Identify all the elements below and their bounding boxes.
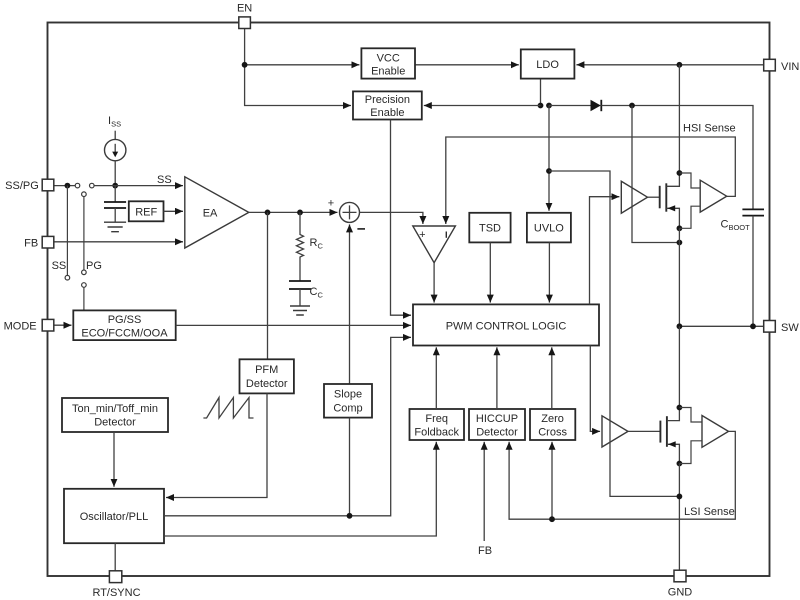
box PG/SS ECO/FCCM/OOA [73, 310, 175, 340]
svg-text:SS: SS [52, 260, 67, 272]
node high-side drain [677, 170, 683, 176]
node LSI zero cross junction [549, 516, 555, 522]
wire MODE pin to PG/SS block [54, 324, 72, 326]
wire Freq Foldback to PWM logic [435, 347, 437, 409]
wire PFM Detector to Oscillator [166, 393, 267, 497]
svg-text:HSI Sense: HSI Sense [683, 123, 736, 135]
wire diode cathode to CBOOT rail [601, 106, 753, 210]
switch contact circle [82, 192, 87, 197]
wire ISS to SS node [114, 161, 116, 186]
ground soft-start [104, 222, 126, 232]
wire EN vertical into Precision Enable [245, 29, 351, 106]
svg-text:Precision: Precision [365, 94, 410, 106]
wire gate low-side [628, 430, 660, 432]
wire VCC Enable to LDO [415, 64, 519, 66]
node VCC rail right [546, 103, 552, 109]
pin VIN [764, 59, 776, 71]
wire EN branch to VCC Enable [245, 64, 360, 66]
pin FB [42, 236, 54, 248]
wire PG sense tap [83, 197, 85, 271]
wire VCC rail through low-side driver to GND [549, 171, 679, 496]
node slope comp branch [347, 513, 353, 519]
box Ton_min/Toff_min Detector [62, 398, 168, 432]
box Precision Enable U3 [353, 91, 422, 119]
wire slope comp to summing minus input [349, 224, 351, 384]
transistor Q2 low-side [660, 408, 679, 464]
svg-text:REF: REF [135, 206, 157, 218]
wire REF to EA [164, 210, 184, 212]
wire LDO output drop [540, 80, 542, 106]
svg-text:+: + [328, 198, 334, 210]
svg-text:RC: RC [310, 237, 324, 251]
svg-text:Cross: Cross [538, 426, 567, 438]
svg-text:LSI Sense: LSI Sense [684, 506, 735, 518]
box HICCUP Detector [469, 409, 525, 440]
comparator PWM [413, 226, 456, 263]
wire switch to SS label and EA [94, 185, 183, 187]
wire HSI Sense line to PWM comparator [446, 137, 736, 224]
wire PWM logic to high-side driver [590, 197, 620, 305]
wire Zero Cross branch [551, 442, 553, 519]
wire PG switch to PG/SS block [83, 287, 85, 310]
wire VCC rail to diode anode [549, 105, 591, 107]
node BOOT branch [629, 103, 635, 109]
switch contact circle [75, 183, 80, 188]
box Slope Comp [324, 384, 372, 418]
wire EA output to PFM Detector [267, 212, 269, 359]
svg-text:PG: PG [86, 260, 102, 272]
wire VIN rail down to high-side drain [678, 65, 680, 173]
box Zero Cross [530, 409, 575, 440]
wire Ton_min detector to Oscillator [113, 432, 115, 487]
box TSD [469, 213, 510, 243]
pin RT/SYNC [109, 571, 121, 583]
svg-text:EN: EN [237, 3, 252, 15]
switch contact circle PG [82, 270, 87, 275]
wire PWM logic to low-side driver [590, 346, 600, 432]
wire FB pin to EA [54, 241, 183, 243]
node SS [112, 183, 118, 189]
op-amp high-side current sense [700, 180, 727, 212]
capacitor CC [289, 281, 311, 306]
wire high-side drain sense tap [679, 173, 700, 188]
box VCC Enable U2 [361, 48, 415, 78]
op-amp low-side current sense [702, 416, 729, 448]
wire low-side source sense tap [679, 441, 702, 464]
wire gate high-side [648, 196, 660, 198]
svg-text:Detector: Detector [246, 378, 288, 390]
wire oscillator output to Freq Foldback [164, 442, 436, 536]
svg-text:ECO/FCCM/OOA: ECO/FCCM/OOA [81, 327, 168, 339]
wire comparator output to PWM logic [433, 263, 435, 303]
wire CBOOT to SW node [752, 216, 754, 327]
node EN junction [242, 62, 248, 68]
wire Precision Enable to PWM logic [391, 120, 412, 316]
svg-text:PWM CONTROL LOGIC: PWM CONTROL LOGIC [446, 320, 567, 332]
svg-text:Oscillator/PLL: Oscillator/PLL [80, 511, 148, 523]
svg-text:TSD: TSD [479, 223, 501, 235]
svg-text:Comp: Comp [333, 402, 362, 414]
svg-text:Foldback: Foldback [414, 426, 459, 438]
op-amp EA [185, 177, 249, 248]
wire VCC rail to Precision Enable [424, 105, 541, 107]
transistor Q1 high-side [660, 173, 680, 228]
box PFM Detector [240, 359, 294, 393]
box Oscillator/PLL [64, 489, 164, 543]
wire SW junction to SW pin [679, 325, 763, 327]
capacitor soft-start [104, 186, 126, 222]
node high-side source [677, 225, 683, 231]
svg-text:Enable: Enable [371, 65, 405, 77]
node SS/PG junction [65, 183, 71, 189]
node CBOOT SW junction [750, 323, 756, 329]
wire low-side source to GND pin [678, 464, 680, 571]
svg-text:SS: SS [157, 174, 172, 186]
wire oscillator to RT/SYNC pin [114, 543, 116, 570]
node SW top [677, 240, 683, 246]
wire FB signal to HICCUP Detector [483, 442, 485, 541]
svg-text:FB: FB [478, 545, 492, 557]
sawtooth waveform [203, 398, 253, 419]
resistor RC [297, 212, 304, 281]
wire summing output to comparator [360, 212, 423, 224]
svg-text:Enable: Enable [370, 107, 404, 119]
svg-text:HICCUP: HICCUP [476, 413, 518, 425]
svg-text:CBOOT: CBOOT [721, 219, 751, 233]
wire BOOT rail through driver to SW [632, 106, 679, 243]
svg-text:MODE: MODE [4, 320, 37, 332]
svg-text:PG/SS: PG/SS [108, 314, 142, 326]
wire HICCUP Detector to PWM logic [496, 347, 498, 409]
svg-text:+: + [419, 229, 425, 241]
node VIN branch [677, 62, 683, 68]
pin SW [764, 321, 776, 333]
svg-text:UVLO: UVLO [534, 223, 564, 235]
svg-text:RT/SYNC: RT/SYNC [92, 587, 140, 599]
svg-text:GND: GND [668, 586, 693, 598]
wire high-side source sense tap [679, 206, 700, 228]
pin MODE [42, 319, 54, 331]
wire SS sense tap [66, 186, 68, 276]
node EA output RC branch [297, 210, 303, 216]
svg-text:LDO: LDO [536, 59, 559, 71]
label summing minus [357, 228, 365, 230]
svg-text:EA: EA [203, 208, 218, 220]
node low-side drain [677, 405, 683, 411]
summing junction [340, 202, 360, 222]
driver high-side U5 [621, 181, 647, 213]
svg-text:VCC: VCC [377, 52, 400, 64]
switch contact circle PG lower [82, 283, 87, 288]
svg-text:ISS: ISS [108, 115, 121, 129]
node VCC driver branch [546, 168, 552, 174]
box Freq Foldback [410, 409, 465, 440]
pin EN [239, 17, 251, 29]
wire high-side source to SW junction [678, 228, 680, 326]
box UVLO [527, 213, 571, 243]
node driver ground junction [677, 494, 683, 500]
driver low-side U6 [602, 416, 628, 447]
wire TSD to PWM logic [489, 242, 491, 302]
wire low-side drain sense tap [679, 408, 702, 423]
node EA output PFM branch [265, 210, 271, 216]
svg-text:SS/PG: SS/PG [5, 180, 39, 192]
svg-text:Ton_min/Toff_min: Ton_min/Toff_min [72, 403, 158, 415]
box REF [129, 201, 164, 221]
svg-text:Detector: Detector [94, 416, 136, 428]
svg-text:FB: FB [24, 237, 38, 249]
wire Slope Comp to oscillator rail [349, 418, 351, 516]
wire VIN to LDO [576, 64, 764, 66]
svg-text:VIN: VIN [781, 61, 799, 73]
svg-text:PFM: PFM [255, 364, 278, 376]
box LDO U4 [521, 49, 575, 78]
wire UVLO to PWM logic [548, 242, 550, 302]
svg-text:Zero: Zero [541, 413, 564, 425]
wire SS/PG pin to switch [54, 185, 75, 187]
wire VCC drop to UVLO [548, 106, 550, 211]
svg-text:SW: SW [781, 322, 799, 334]
ground CC [290, 306, 310, 315]
node VCC rail left [538, 103, 544, 109]
wire LSI Sense line to HICCUP and Zero Cross [509, 431, 735, 519]
node SW junction [677, 323, 683, 329]
wire oscillator output to slope and PWM logic [164, 337, 411, 515]
svg-text:Freq: Freq [425, 413, 448, 425]
wire Zero Cross to PWM logic [551, 347, 553, 409]
capacitor CBOOT [742, 209, 764, 215]
current source ISS [105, 131, 126, 161]
wire PG/SS block to PWM logic [176, 324, 411, 326]
diode D1 [591, 100, 602, 111]
box PWM CONTROL LOGIC [413, 304, 599, 345]
switch contact circle [90, 183, 95, 188]
pin SS/PG [42, 179, 54, 191]
svg-text:Slope: Slope [334, 389, 362, 401]
pin GND [674, 570, 686, 582]
wire SW junction to low-side drain [678, 326, 680, 407]
svg-text:Detector: Detector [476, 426, 518, 438]
svg-text:CC: CC [310, 286, 324, 300]
wire EA output to summing node [249, 211, 338, 213]
node low-side source [677, 461, 683, 467]
switch contact circle SS [65, 275, 70, 280]
